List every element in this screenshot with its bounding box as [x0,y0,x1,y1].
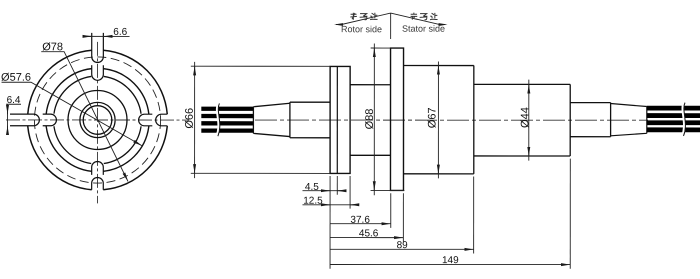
stator body Ø67 [403,66,473,174]
stator side arrow [439,23,448,26]
extension line Ø67 body end [473,177,475,254]
dimension Ø66 line [194,62,196,178]
svg-text:Ø88: Ø88 [364,109,376,130]
extension line stator flange back [402,193,404,241]
extension line flange back face [336,176,338,195]
dimension 89 line [330,248,474,250]
svg-text:Ø78: Ø78 [42,41,63,53]
dimension 45.6 line [330,237,403,239]
top inner slot [92,65,104,80]
svg-text:6.6: 6.6 [113,27,127,38]
front view inner body circle [68,90,127,149]
dimension Ø67 bottom arrow [437,166,439,174]
extension line reference face [329,176,331,269]
left outer slot [10,114,39,126]
dimension Ø67 line [437,62,439,179]
dimension Ø88 extension lines [371,48,405,190]
rotor lead wire 2 [201,114,253,118]
front view vertical centerline [96,42,98,203]
rotor flange inner face line [336,66,338,173]
dimension 149 line [330,263,570,265]
svg-text:4.5: 4.5 [305,182,319,193]
front view hub inner ring [83,106,112,135]
svg-text:Ø66: Ø66 [184,108,196,129]
stator lead wire 4 [647,127,700,132]
dimension 4.5 arrows [323,190,330,192]
stator cable boot taper [611,104,647,136]
extension line rotor hub face [349,176,351,209]
dimension 6.6 right arrow [103,35,111,37]
front view circle Ø57.6 (interrupted at four inner slots) [46,69,149,172]
stator flange Ø88 [390,48,403,190]
top outer slot [92,33,104,63]
stator body Ø44 [474,84,570,156]
front view outer circle Ø78 (interrupted at four slots) [28,50,168,190]
front view horizontal centerline [6,119,189,121]
stator small cylinder [570,103,610,137]
stator lead wire 1 [647,106,700,111]
rotor side arrow [334,23,343,26]
side view centerline [255,119,648,121]
dimension Ø66 top arrow [194,66,196,74]
dimension Ø66 bottom arrow [194,166,196,173]
dimension Ø44 top arrow [528,84,530,92]
right outer slot [156,114,168,126]
dimension Ø66 extension lines [191,66,330,173]
dimension Ø88 top arrow [373,48,375,56]
front view hub outer ring [80,102,115,137]
svg-text:89: 89 [397,240,409,251]
rotor wire break symbol [217,103,219,136]
front view circle r44 (interrupted at four slots) [54,76,141,163]
left inner slot [43,114,57,126]
dimension Ø44 bottom arrow [528,148,530,156]
dimension 37.6 line [330,223,391,225]
svg-text:149: 149 [442,255,459,266]
stator lead wire 3 [647,120,700,125]
front view dashed bolt circle [34,57,160,183]
rotor flange Ø66 [330,66,350,173]
svg-text:Ø67: Ø67 [427,107,439,128]
stator lead wire 2 [647,113,700,118]
rotor shaft cylinder [290,102,330,138]
label 定子边 (stator side chinese) [411,13,438,20]
svg-text:Ø44: Ø44 [519,107,531,128]
bottom outer slot [92,177,104,189]
rotor lead wire 4 [201,128,253,132]
svg-text:37.6: 37.6 [350,215,370,226]
rotor shaft taper cone [253,103,290,136]
label 转子边 (rotor side chinese) [350,13,377,20]
dimension 12.5 line [302,204,357,206]
svg-text:6.4: 6.4 [7,95,21,106]
rotor lead wire 3 [201,121,253,125]
rotor lead wire 1 [201,107,253,111]
svg-text:12.5: 12.5 [303,196,323,207]
dimension Ø67 top arrow [437,65,439,73]
dimension Ø88 line [373,44,375,196]
dimension 6.4 line [6,104,21,132]
dimension Ø44 line [528,80,530,161]
dimension 12.5 arrows [323,204,330,206]
svg-text:Ø57.6: Ø57.6 [1,72,31,84]
extension line stator flange front [390,193,392,228]
dimension 4.5 line [302,190,344,192]
dimension Ø88 bottom arrow [373,183,375,191]
svg-text:Stator side: Stator side [402,24,445,34]
leader line Ø57.6 [1,82,142,145]
right inner slot [139,114,153,126]
rotor/stator divider symbol [336,13,445,39]
dimension 6.4 top arrow [7,107,9,114]
bottom inner slot [92,161,104,174]
stator wire break symbol [682,103,684,136]
leader line Ø78 [41,52,128,182]
svg-text:Rotor side: Rotor side [341,24,382,34]
extension line Ø44 body end [569,159,571,269]
middle cylinder [350,85,390,156]
dimension 6.6 line [83,35,130,37]
dimension 6.6 left arrow [85,35,92,37]
dimension 6.4 bottom arrow [7,126,9,133]
svg-text:45.6: 45.6 [359,228,379,239]
